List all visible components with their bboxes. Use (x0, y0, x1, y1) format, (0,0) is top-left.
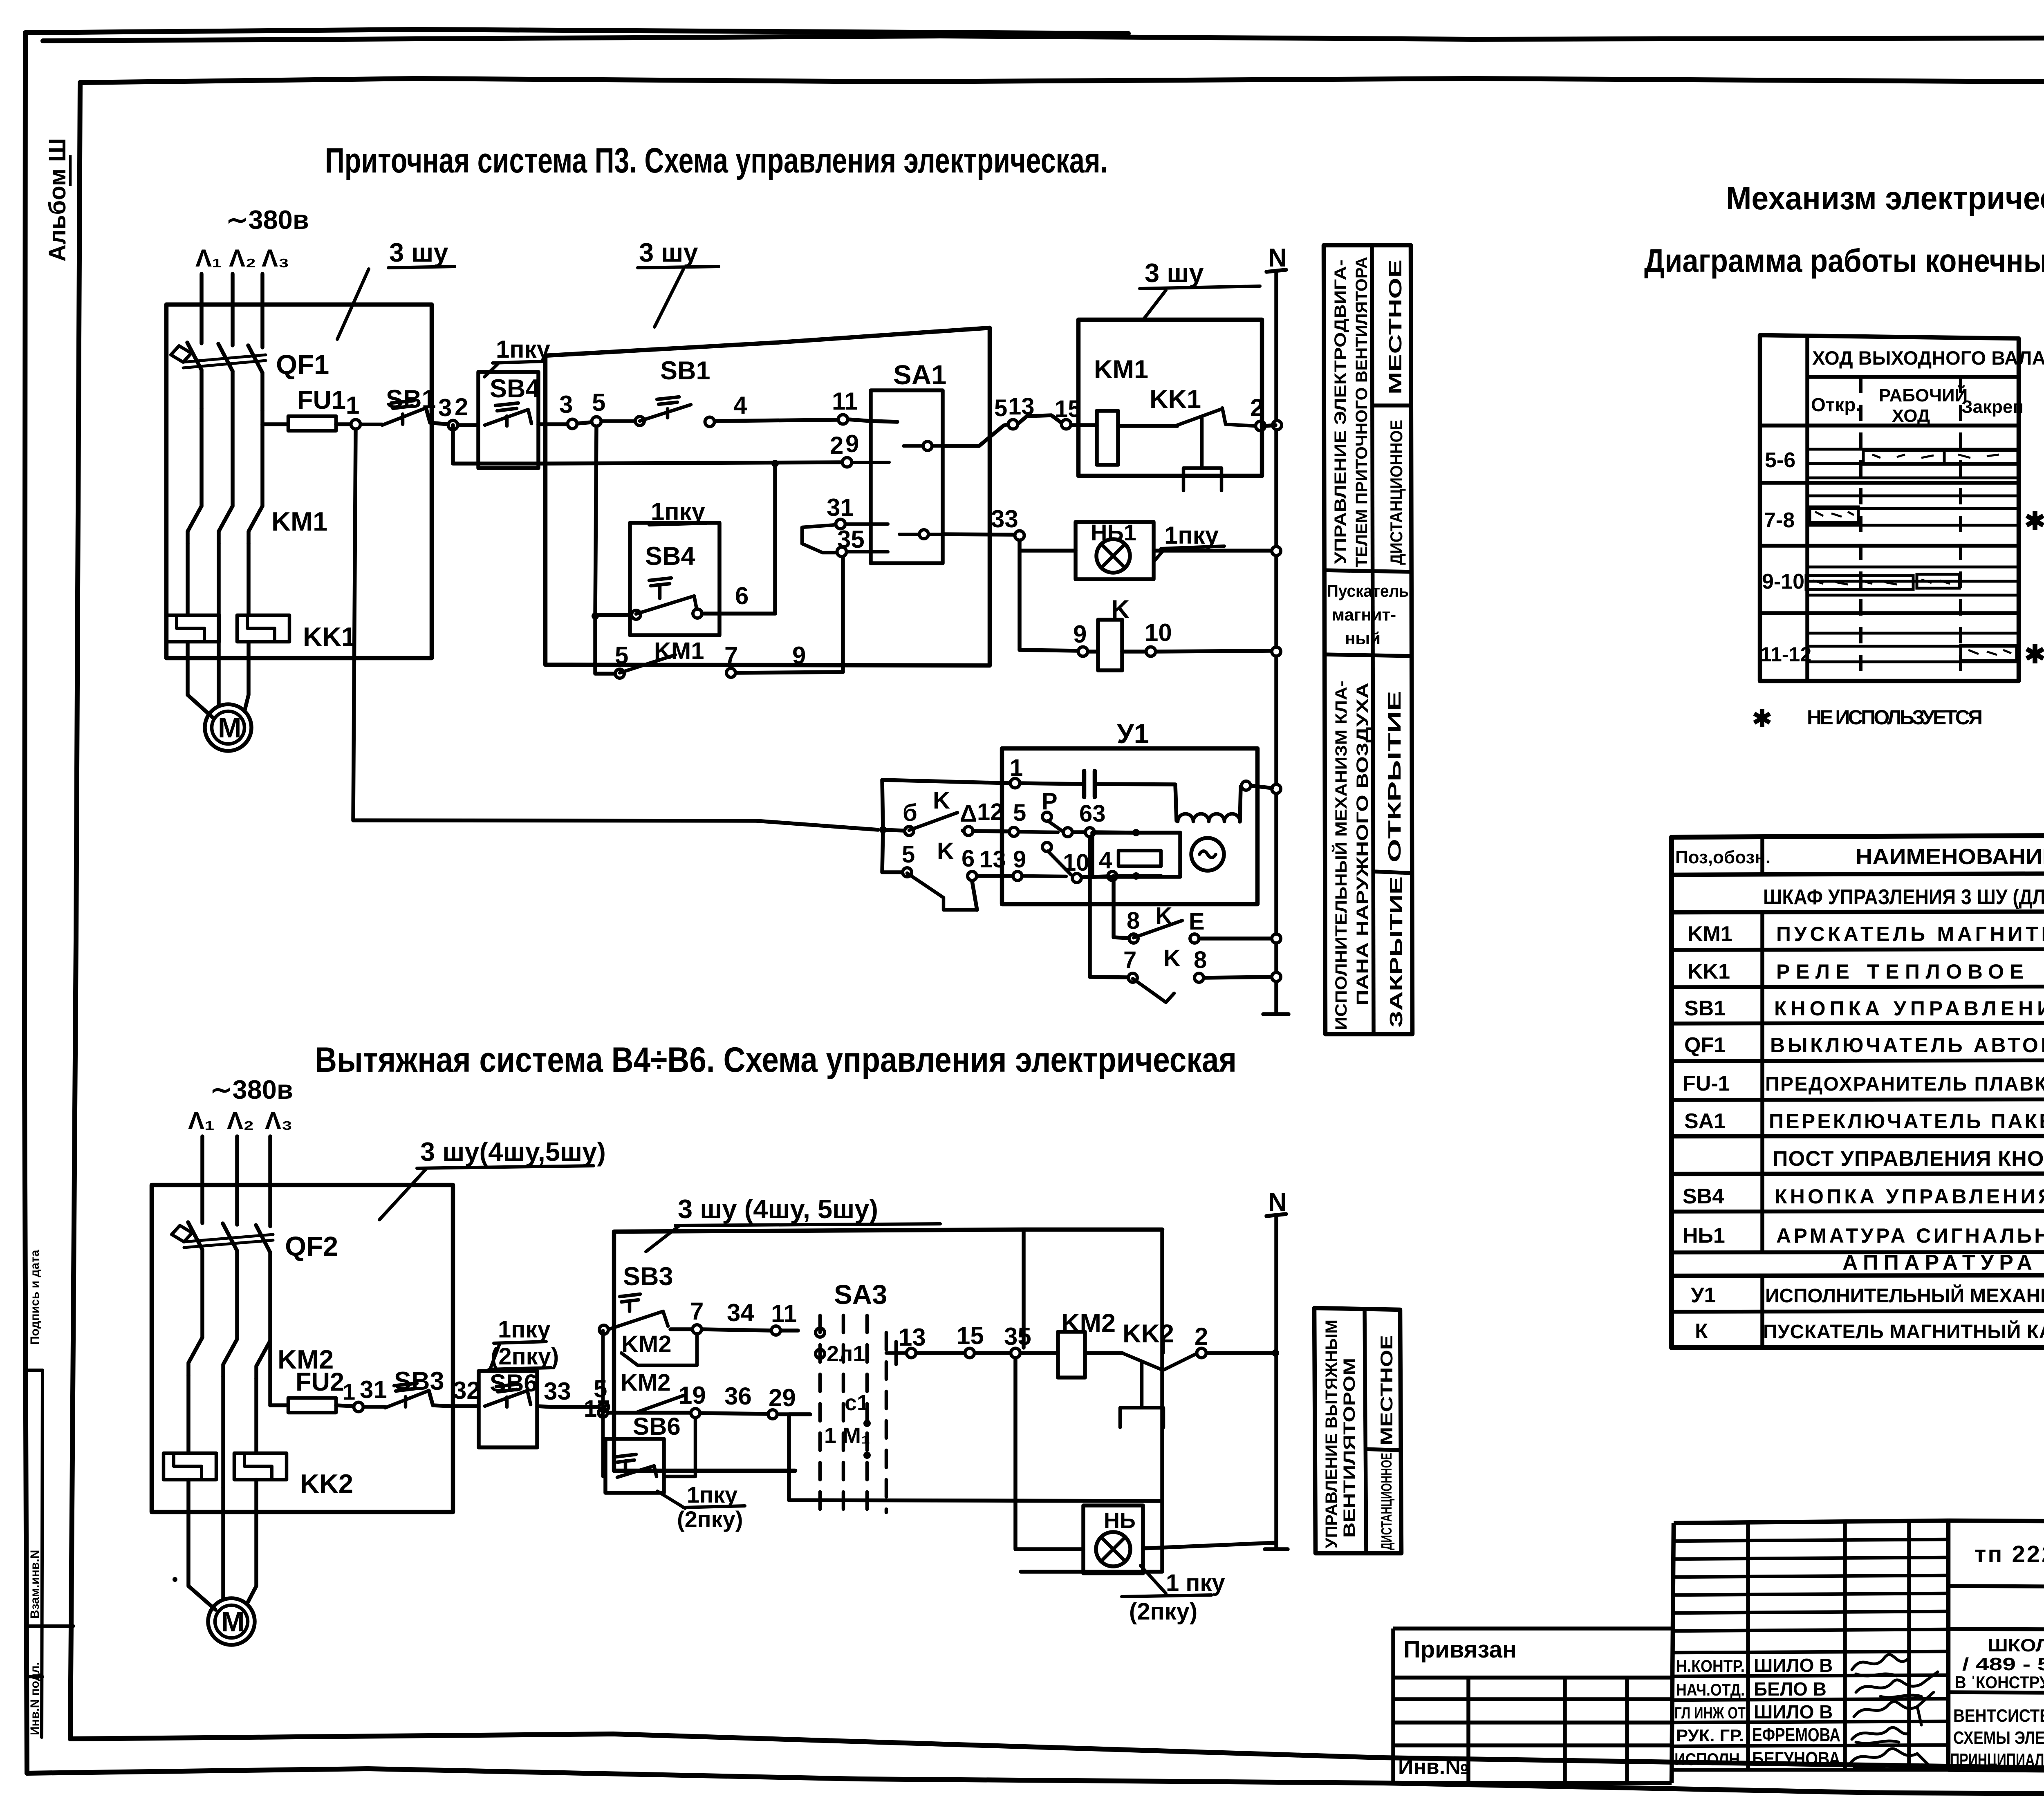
svg-text:РАБОЧИЙ: РАБОЧИЙ (1879, 385, 1968, 405)
svg-text:Механизм электрический У1: Механизм электрический У1 (1726, 180, 2044, 216)
svg-text:9: 9 (845, 430, 859, 457)
wire node15 into KM1 box (1071, 423, 1097, 427)
thermal relay KK2 heater elements (164, 1453, 216, 1480)
wire pin1 to capacitor (1020, 783, 1084, 784)
button SB3 start (623, 1262, 673, 1291)
label 3shu #3 (1145, 258, 1204, 288)
wire from row29 down to SB4 latch (773, 464, 777, 614)
svg-text:31: 31 (360, 1376, 387, 1403)
pushbutton station SB4 box (478, 372, 538, 468)
svg-text:В ˈКОНСТРУКЦИЯХ СЕРИИ 1.020-1/: В ˈКОНСТРУКЦИЯХ СЕРИИ 1.020-1/83 (1955, 1673, 2044, 1692)
svg-text:✱: ✱ (2024, 507, 2044, 535)
node 11 (838, 415, 848, 424)
svg-text:УПРАВЛЕНИЕ ВЫТЯЖНЫМ: УПРАВЛЕНИЕ ВЫТЯЖНЫМ (1322, 1319, 1340, 1548)
svg-text:Подпись и дата: Подпись и дата (28, 1250, 42, 1345)
svg-text:✱: ✱ (1752, 706, 1772, 732)
svg-text:ПРЕДОХРАНИТЕЛЬ ПЛАВКИЙ ТРУБЧ: ПРЕДОХРАНИТЕЛЬ ПЛАВКИЙ ТРУБЧАТЫЙ (1765, 1073, 2044, 1095)
diagram bar 9-10 (1806, 574, 1959, 589)
wire node3 to node5 (578, 422, 591, 423)
svg-text:35: 35 (1004, 1323, 1031, 1350)
svg-text:1: 1 (346, 392, 359, 419)
svg-text:∼380в: ∼380в (226, 205, 309, 235)
svg-text:ШИЛО В: ШИЛО В (1754, 1655, 1833, 1676)
svg-text:SA1: SA1 (893, 360, 946, 390)
svg-text:3 шу (4шу, 5шу): 3 шу (4шу, 5шу) (678, 1194, 878, 1224)
svg-text:ВЫКЛЮЧАТЕЛЬ АВТОМАТИЧЕСКИЙ: ВЫКЛЮЧАТЕЛЬ АВТОМАТИЧЕСКИЙ (1770, 1033, 2044, 1057)
wire node2 to SB4 box (458, 423, 478, 427)
svg-text:KM2: KM2 (621, 1331, 671, 1357)
svg-text:ИСПОЛНИТЕЛЬНЫЙ МЕХАНИЗМ КЛА-: ИСПОЛНИТЕЛЬНЫЙ МЕХАНИЗМ КЛА- (1331, 681, 1350, 1030)
svg-text:SB4: SB4 (645, 542, 695, 571)
node 5 (592, 417, 601, 426)
circuit breaker QF1 (187, 343, 262, 373)
svg-text:SB4: SB4 (490, 374, 540, 403)
title block right grid (1948, 1521, 2044, 1774)
svg-text:KK1: KK1 (1150, 385, 1201, 414)
svg-text:ХОД ВЫХОДНОГО ВАЛА: ХОД ВЫХОДНОГО ВАЛА (1812, 347, 2044, 369)
contact P (1042, 788, 1058, 815)
thermal relay KK1 heater elements (166, 615, 219, 642)
svg-text:Λ₁: Λ₁ (188, 1107, 215, 1134)
svg-text:2: 2 (830, 432, 843, 459)
svg-text:7: 7 (690, 1297, 704, 1325)
privyazan box (1393, 1629, 1672, 1783)
contactor KM1 main contacts (188, 506, 262, 544)
wire coil to KK1 contact (1118, 424, 1177, 428)
svg-text:13: 13 (979, 846, 1006, 873)
parts table row lines (1672, 872, 2044, 875)
diagram header row lines (1760, 377, 2019, 426)
svg-text:2: 2 (455, 393, 468, 421)
svg-text:KK1: KK1 (303, 622, 356, 652)
wires KK1 to motor (188, 642, 249, 717)
svg-text:9: 9 (1013, 846, 1026, 873)
wire main control line from phase C (262, 422, 288, 426)
svg-text:FU-1: FU-1 (1683, 1072, 1730, 1095)
wire capacitor to winding (1095, 784, 1177, 821)
svg-text:2л1: 2л1 (827, 1342, 865, 1366)
svg-text:1пку: 1пку (1164, 522, 1219, 549)
button SB6 latch box (633, 1413, 681, 1440)
svg-text:SB6: SB6 (633, 1413, 681, 1440)
contactor KM2 main contacts (188, 1337, 270, 1378)
svg-text:ШИЛО В: ШИЛО В (1754, 1701, 1833, 1723)
node 33 (544, 1378, 571, 1405)
wire lamp to N (1154, 549, 1271, 553)
svg-text:ОТКРЫТИЕ: ОТКРЫТИЕ (1385, 691, 1405, 862)
label 3shu(4shu,5shu) #1 (420, 1137, 606, 1167)
svg-text:Пускатель: Пускатель (1327, 581, 1409, 600)
wire SA3 out (886, 1342, 906, 1364)
contactor coil KM1 (1094, 355, 1148, 384)
svg-text:KK2: KK2 (300, 1469, 353, 1499)
diagram track lines row 7-8 (1807, 496, 2019, 525)
svg-text:ПАНА НАРУЖНОГО ВОЗДУХА: ПАНА НАРУЖНОГО ВОЗДУХА (1354, 683, 1372, 1006)
node 2 (448, 421, 458, 430)
side column divider vertical (1372, 245, 1374, 1034)
svg-text:1 M₁: 1 M₁ (824, 1423, 870, 1448)
button SB1 start (660, 356, 710, 385)
enclosure box 3shu V4 power (152, 1185, 453, 1512)
svg-text:5: 5 (615, 642, 628, 669)
node 3 (568, 419, 577, 429)
svg-text:3 шу: 3 шу (639, 237, 698, 267)
svg-text:3 шу: 3 шу (389, 237, 448, 267)
wire node35 down to lamp (1015, 1358, 1083, 1549)
contact K row1 (883, 830, 904, 831)
svg-text:АРМАТУРА СИГНАЛЬНОЙ ЛАМПЫ: АРМАТУРА СИГНАЛЬНОЙ ЛАМПЫ (1776, 1224, 2044, 1247)
svg-text:(2пку): (2пку) (491, 1343, 559, 1370)
wire long feed from node 1 (353, 430, 878, 830)
svg-text:6: 6 (961, 845, 975, 872)
switch SA1 wiper upper (903, 444, 943, 448)
wire node2 to N bus (1266, 425, 1275, 426)
svg-text:УПРАВЛЕНИЕ ЭЛЕКТРОДВИГА-: УПРАВЛЕНИЕ ЭЛЕКТРОДВИГА- (1331, 260, 1349, 564)
wire chainB to bottom (789, 1414, 1162, 1501)
svg-text:∼380в: ∼380в (210, 1075, 293, 1104)
svg-text:SB3: SB3 (623, 1262, 673, 1291)
outer left border (25, 33, 27, 1773)
wire main control from phase C (270, 1403, 288, 1407)
svg-text:Привязан: Привязан (1403, 1636, 1517, 1663)
side column divider (1365, 1309, 1366, 1553)
dot artifact (173, 1577, 177, 1582)
fuse FU2 (288, 1398, 336, 1413)
svg-text:ГЛ ИНЖ ОТ: ГЛ ИНЖ ОТ (1674, 1704, 1746, 1722)
svg-text:KM1: KM1 (1094, 355, 1148, 384)
svg-text:5: 5 (902, 841, 915, 868)
inner frame top (80, 78, 2044, 83)
svg-text:SB4: SB4 (1683, 1185, 1724, 1208)
node 7 (693, 1325, 702, 1334)
lamp HL1 (1096, 539, 1130, 573)
svg-text:магнит-: магнит- (1332, 605, 1396, 624)
node 35 (837, 547, 847, 557)
button SB3 stop (394, 1367, 444, 1396)
svg-text:7: 7 (724, 642, 738, 669)
svg-text:KK1: KK1 (1688, 960, 1730, 983)
branch 7-K-8 (1090, 838, 1127, 977)
svg-text:ХОД: ХОД (1892, 406, 1930, 426)
svg-text:ИСПОЛНИТЕЛЬНЫЙ МЕХАНИЗМ МЭО-4: ИСПОЛНИТЕЛЬНЫЙ МЕХАНИЗМ МЭО-4/63-03 (1765, 1284, 2044, 1307)
wire lamp to N (1143, 1543, 1276, 1548)
wire row 29 (453, 425, 842, 464)
button SB4 contact (485, 403, 531, 426)
svg-text:5: 5 (1013, 800, 1026, 826)
svg-text:29: 29 (769, 1384, 796, 1411)
svg-text:3: 3 (438, 394, 452, 421)
svg-text:1 пку: 1 пку (1166, 1570, 1225, 1596)
svg-text:Н.КОНТР.: Н.КОНТР. (1676, 1656, 1745, 1676)
svg-text:Λ₃: Λ₃ (265, 1107, 293, 1134)
wire node11 to SA1 (848, 419, 897, 422)
label 3shu #1 (389, 237, 448, 267)
contact KM2 latch (621, 1331, 671, 1357)
svg-text:35: 35 (837, 526, 865, 553)
svg-text:ПУСКАТЕЛЬ МАГНИТНЫЙ КАТ.∼220: ПУСКАТЕЛЬ МАГНИТНЫЙ КАТ.∼220в ПМЕ121 (1763, 1320, 2044, 1343)
N bus P3 (1268, 244, 1287, 272)
lamp armature HL box (1083, 1505, 1143, 1573)
svg-text:Поз,обозн.: Поз,обозн. (1675, 847, 1771, 867)
svg-text:б: б (903, 800, 917, 826)
svg-text:ДИСТАНЦИОННОЕ: ДИСТАНЦИОННОЕ (1378, 1453, 1395, 1550)
wire phase A V4 (200, 1136, 204, 1223)
wire phase C V4 (268, 1136, 272, 1226)
svg-text:БЕЛО В: БЕЛО В (1754, 1678, 1827, 1700)
svg-text:КНОПКА УПРАВЛЕНИЯ КЕ: КНОПКА УПРАВЛЕНИЯ КЕ (1775, 1185, 2044, 1208)
wire node5 down (595, 427, 596, 662)
node labels 3 2 (438, 393, 468, 421)
svg-text:10: 10 (1063, 849, 1089, 876)
inductor winding (1178, 814, 1240, 822)
wire SA1 lower wiper to node 33 (943, 534, 1014, 535)
label 3shu #2 (639, 237, 698, 267)
svg-text:2: 2 (1195, 1323, 1208, 1350)
svg-text:НЬ: НЬ (1104, 1508, 1136, 1533)
wire up to U1 pin1 (882, 780, 1010, 830)
label 1pku/(2pku) lamp (1166, 1570, 1225, 1596)
section line (1365, 1449, 1401, 1450)
svg-text:РУК. ГР.: РУК. ГР. (1676, 1726, 1744, 1745)
svg-text:12: 12 (977, 799, 1004, 825)
svg-text:У1: У1 (1117, 719, 1149, 749)
outer bottom border (27, 1769, 2044, 1795)
outer top border second stroke (43, 36, 2044, 41)
node pin 1 (1011, 779, 1020, 788)
fuse FU1 (288, 416, 336, 431)
svg-text:11: 11 (832, 388, 858, 415)
label 3shu(4shu,5shu) #2 (678, 1194, 878, 1224)
enclosure box 3shu V4 control (614, 1230, 1162, 1471)
margin sub column line (42, 1370, 43, 1737)
AC source (1191, 838, 1224, 871)
wire phase C down to KM1 (260, 411, 264, 506)
solenoid block (1092, 833, 1180, 877)
svg-text:ШКАФ УПРАЗЛЕНИЯ 3 ШУ (ДЛЯ: ШКАФ УПРАЗЛЕНИЯ 3 ШУ (ДЛЯ СИСТЕМЫ П3) (1763, 885, 2044, 909)
side column box upper (1324, 245, 1412, 1034)
circuit breaker QF2 (188, 1222, 270, 1252)
svg-text:33: 33 (544, 1378, 571, 1405)
svg-text:3: 3 (559, 391, 573, 418)
svg-text:1: 1 (343, 1379, 355, 1405)
svg-text:Приточная система П3. Схема: Приточная система П3. Схема управления э… (325, 141, 1108, 180)
svg-text:13: 13 (899, 1324, 926, 1351)
svg-text:5-6: 5-6 (1765, 448, 1795, 472)
svg-text:7: 7 (1123, 947, 1136, 973)
thermal contact KK2 (1123, 1319, 1174, 1348)
node 31 (836, 520, 845, 529)
pushbutton station box SB4 latch (630, 523, 719, 635)
side column box lower (1314, 1308, 1401, 1553)
diagram bar 11-12 (1961, 645, 2017, 661)
svg-text:K: K (937, 838, 954, 865)
svg-text:Вытяжная система В4÷В6. Схем: Вытяжная система В4÷В6. Схема управления… (315, 1040, 1237, 1080)
parts table column lines (1760, 837, 1764, 1348)
svg-text:11-12: 11-12 (1760, 643, 1811, 666)
svg-text:63: 63 (1079, 800, 1106, 827)
svg-text:8: 8 (1127, 907, 1140, 934)
svg-text:5: 5 (994, 395, 1007, 421)
svg-text:9: 9 (792, 642, 806, 669)
wire to node 1 (336, 422, 350, 426)
motor M1 (205, 704, 251, 751)
svg-text:36: 36 (724, 1382, 752, 1410)
wire phase A P3 (199, 274, 204, 343)
node 35 (1011, 1349, 1020, 1358)
svg-text:1пку: 1пку (496, 336, 551, 363)
svg-text:31: 31 (827, 494, 854, 521)
contact K row2 (882, 830, 902, 872)
svg-text:ПРИНЦИПИАЛЬНЫЕ УПРАВЛЕНИЯ: ПРИНЦИПИАЛЬНЫЕ УПРАВЛЕНИЯ (1950, 1750, 2044, 1770)
svg-text:N: N (1268, 1188, 1287, 1216)
node 6 (735, 582, 749, 609)
svg-text:/ 489 - 504 УЧАЩИХСЯ /: / 489 - 504 УЧАЩИХСЯ / (1962, 1654, 2044, 1674)
svg-text:СХЕМЫ ЭЛЕКТРИЧЕСКИЕ: СХЕМЫ ЭЛЕКТРИЧЕСКИЕ (1953, 1728, 2044, 1748)
wire phase C P3 (260, 274, 264, 347)
svg-text:11: 11 (771, 1300, 797, 1327)
N bus V4 (1268, 1188, 1287, 1216)
wire phase B V4 (235, 1136, 239, 1225)
svg-text:Λ₂: Λ₂ (227, 1107, 254, 1134)
svg-text:Λ₁: Λ₁ (195, 244, 222, 272)
diagram bar 7-8 (1810, 507, 1858, 522)
wire box top to node35 (1022, 1230, 1026, 1348)
node 29 (843, 458, 852, 467)
node 32 (453, 1377, 480, 1404)
side column section lines (1324, 405, 1412, 873)
svg-text:НЬ1: НЬ1 (1091, 520, 1136, 545)
svg-text:с1: с1 (845, 1391, 869, 1415)
svg-text:ПУСКАТЕЛЬ МАГНИТНЫЙ: ПУСКАТЕЛЬ МАГНИТНЫЙ (1776, 922, 2044, 945)
svg-text:33: 33 (991, 505, 1018, 533)
button SB4 latch contact (649, 578, 671, 598)
svg-text:5: 5 (592, 389, 605, 416)
svg-text:3 шу(4шу,5шу): 3 шу(4шу,5шу) (420, 1137, 606, 1167)
wire node31 zigzag to node35 (802, 525, 836, 553)
svg-text:E: E (1189, 908, 1205, 935)
node 11 (771, 1326, 780, 1335)
wire hop 13 to 15 (1018, 415, 1061, 423)
svg-text:KM1: KM1 (1688, 922, 1732, 946)
svg-text:M: M (218, 712, 241, 744)
svg-text:МЕСТНОЕ: МЕСТНОЕ (1377, 1335, 1396, 1445)
svg-text:7-8: 7-8 (1764, 509, 1795, 532)
svg-text:ный: ный (1345, 629, 1381, 648)
svg-text:НАЧ.ОТД.: НАЧ.ОТД. (1676, 1680, 1745, 1699)
svg-text:ПОСТ УПРАВЛЕНИЯ КНОПОЧНЫЙ: ПОСТ УПРАВЛЕНИЯ КНОПОЧНЫЙ ПКУ (1773, 1147, 2044, 1171)
svg-text:QF2: QF2 (285, 1231, 338, 1262)
svg-text:ЗАКРЫТИЕ: ЗАКРЫТИЕ (1386, 876, 1406, 1028)
svg-text:Диаграмма работы конечных в: Диаграмма работы конечных выключателей (1644, 242, 2044, 279)
label U1 (1117, 719, 1149, 749)
label 1pku lamp (1164, 522, 1219, 549)
contact KM1 aux (654, 638, 704, 664)
label 1pku #1 (496, 336, 551, 363)
button SB1 stop (386, 385, 436, 414)
svg-text:Λ₂: Λ₂ (229, 244, 256, 272)
selector switch SA3 dashed (834, 1279, 887, 1310)
svg-text:SA3: SA3 (834, 1279, 887, 1310)
node 2 (1197, 1349, 1206, 1358)
svg-text:Инв.N подл.: Инв.N подл. (28, 1662, 42, 1735)
node 4 (705, 417, 715, 427)
svg-text:FU1: FU1 (297, 386, 346, 414)
node 15 (1062, 420, 1071, 429)
svg-text:3 шу: 3 шу (1145, 258, 1204, 288)
wire phase A down to KM1 (199, 409, 204, 506)
svg-text:ПЕРЕКЛЮЧАТЕЛЬ ПАКЕТНЫЙ: ПЕРЕКЛЮЧАТЕЛЬ ПАКЕТНЫЙ (1769, 1109, 2044, 1133)
wire node4 to node 11 (715, 420, 838, 421)
svg-text:15: 15 (957, 1322, 984, 1349)
svg-text:9: 9 (1073, 621, 1087, 648)
svg-text:34: 34 (727, 1299, 754, 1326)
svg-text:НАИМЕНОВАНИЕ: НАИМЕНОВАНИЕ (1856, 845, 2044, 869)
node 13 (907, 1349, 916, 1358)
svg-text:1пку: 1пку (687, 1482, 737, 1508)
thermal contact KK1 (1150, 385, 1201, 414)
diagram track lines row 5-6 (1807, 449, 2019, 478)
svg-text:К: К (1695, 1319, 1708, 1343)
wires KK2 to motor (188, 1480, 256, 1610)
svg-text:МЕСТНОЕ: МЕСТНОЕ (1385, 260, 1405, 394)
svg-text:ШКОЛА НА 13 КЛАССОВ: ШКОЛА НА 13 КЛАССОВ (1988, 1635, 2044, 1655)
svg-text:QF1: QF1 (276, 349, 329, 380)
inner frame bottom (70, 1734, 2044, 1774)
svg-text:SB1: SB1 (1684, 997, 1726, 1020)
svg-text:M: M (221, 1606, 244, 1638)
wire right loop (1021, 1230, 1162, 1572)
svg-text:ДИСТАНЦИОННОЕ: ДИСТАНЦИОННОЕ (1387, 420, 1406, 565)
svg-text:1пку: 1пку (498, 1316, 551, 1343)
signature grid A (1672, 1521, 1948, 1783)
svg-text:(2пку): (2пку) (1129, 1598, 1197, 1625)
enclosure box 3shu P3 coil section (1078, 320, 1262, 476)
svg-text:1: 1 (1010, 755, 1023, 781)
node 33 (1015, 531, 1024, 540)
outer top border line (25, 29, 1128, 34)
box U1 (1002, 748, 1257, 904)
diagram header col line (1805, 335, 1809, 681)
label 1pku/(2pku) #2 (687, 1482, 737, 1508)
svg-text:K: K (1163, 945, 1181, 972)
svg-text:6: 6 (735, 582, 749, 609)
diagram table outer (1760, 335, 2019, 681)
enclosure box 3shu P3 control (545, 328, 990, 665)
svg-text:Откр.: Откр. (1811, 394, 1861, 415)
parts table outer (1672, 834, 2044, 1348)
svg-text:НЕ ИСПОЛЬЗУЕТСЯ: НЕ ИСПОЛЬЗУЕТСЯ (1807, 706, 1983, 729)
node 15 (965, 1349, 975, 1358)
capacitor C (1084, 771, 1095, 797)
svg-text:9-10: 9-10 (1762, 570, 1804, 594)
pushbutton station SB6 box (479, 1371, 537, 1447)
contactor coil KM2 (1061, 1309, 1116, 1337)
node 13 (1009, 420, 1018, 429)
svg-text:БЕГУНОВА: БЕГУНОВА (1752, 1748, 1840, 1769)
svg-text:4: 4 (733, 392, 747, 419)
svg-text:SA1: SA1 (1684, 1109, 1726, 1133)
svg-text:SB1: SB1 (660, 356, 710, 385)
diagram track lines row 11-12 (1807, 633, 2019, 662)
relay K (1111, 595, 1130, 624)
svg-text:Альбом Ш: Альбом Ш (44, 138, 71, 262)
node 1/31 (354, 1402, 363, 1412)
diagram bar 5-6 (1863, 450, 2018, 464)
wire up to node 35 (841, 557, 845, 672)
svg-text:32: 32 (453, 1377, 480, 1404)
svg-text:ТЕЛЕМ ПРИТОЧНОГО ВЕНТИЛЯТОРА: ТЕЛЕМ ПРИТОЧНОГО ВЕНТИЛЯТОРА (1353, 257, 1371, 567)
svg-text:У1: У1 (1691, 1284, 1716, 1307)
